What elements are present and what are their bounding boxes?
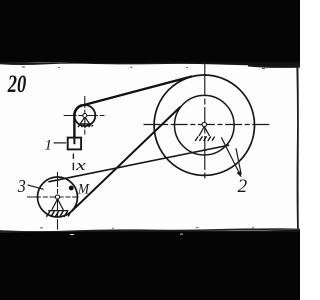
crossed belt line L2 (wheel 3 top to inner rim lower-right) (48, 145, 229, 182)
wheel 3 support hatching (46, 211, 70, 217)
pulley 2 outer rim (154, 75, 254, 175)
label 2 leader arrowhead (237, 171, 242, 177)
pulley P axle pin (83, 114, 87, 118)
pulley 2 centerline vertical (204, 62, 206, 181)
rope vertical segment from pulley P down to block 1 (73, 115, 75, 139)
block 1 (load) (68, 138, 81, 150)
label 2 leader line to outer rim (236, 148, 241, 174)
pulley 2 inner rim (175, 95, 235, 155)
wheel 3 axle pin (55, 195, 59, 199)
pulley P support hatching (78, 124, 93, 127)
rope from pulley P to pulley 2 outer rim (82, 76, 192, 105)
scan noise speckles (22, 67, 265, 229)
svg-text:20: 20 (7, 71, 27, 98)
svg-text:x: x (75, 158, 86, 174)
svg-text:M: M (77, 182, 90, 198)
rope stub inside block 1 (73, 138, 75, 145)
label 2 leader line to inner rim (221, 137, 240, 175)
pulley 2 support triangle (199, 127, 210, 136)
wheel 3 rim (38, 177, 78, 217)
axis x dashed line below block 1 (72, 154, 74, 171)
pulley 2 axle pin (202, 122, 206, 126)
pulley P (small, top-left): centerline horizontal (64, 115, 106, 117)
pulley 2 centerline horizontal (144, 124, 270, 126)
pulley P support triangle (80, 117, 91, 124)
leader line for label 3 (28, 185, 44, 189)
rope wrap arc on pulley P (74, 105, 82, 115)
scan torn edge line bottom (0, 228, 300, 233)
scan black band bottom (0, 231, 300, 300)
scan torn edge line top (0, 62, 300, 66)
svg-text:3: 3 (17, 176, 26, 196)
scan black band top (0, 0, 300, 62)
pulley 2 support hatching (195, 136, 214, 141)
wheel 3 centerline horizontal (27, 196, 79, 198)
svg-text:2: 2 (238, 176, 248, 197)
page border line right (296, 67, 298, 230)
wheel 3 centerline vertical (57, 172, 59, 230)
point M dot (69, 186, 74, 191)
wheel 3 support triangle (48, 199, 68, 211)
pulley P centerline vertical (84, 96, 86, 135)
svg-text:1: 1 (45, 138, 53, 154)
crossed belt line L1 (wheel 3 bottom to inner rim upper-left) (71, 107, 181, 212)
leader line for label 1 (54, 142, 67, 144)
pulley P rim (74, 105, 95, 126)
